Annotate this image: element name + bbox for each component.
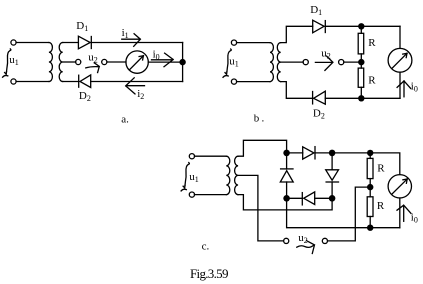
- wire u2 right to middle node b: [344, 61, 362, 63]
- diode bridge right c: [326, 170, 339, 182]
- diode D1 b: [313, 20, 326, 33]
- resistor R lower c: [367, 187, 373, 228]
- current arrow i0 b: [397, 81, 411, 97]
- wire center tap a: [63, 61, 76, 63]
- junction node a: [179, 59, 185, 65]
- transformer secondary winding c: [235, 156, 239, 194]
- svg-text:b .: b .: [254, 113, 265, 125]
- terminal top-left b: [231, 40, 236, 45]
- transformer primary winding c: [226, 156, 230, 194]
- terminal bottom-left c: [189, 192, 194, 197]
- junction bridge top-right c: [329, 150, 336, 157]
- terminal u2 right b: [339, 60, 344, 65]
- voltage arrow u1 a: [3, 49, 11, 77]
- svg-text:Fig.3.59: Fig.3.59: [190, 266, 228, 281]
- wire D1 to meter corner b: [325, 25, 400, 27]
- wire secondary bottom to bottom rail b: [281, 82, 313, 99]
- diode bridge bottom c: [302, 192, 314, 205]
- wire D2 to meter corner b: [325, 97, 400, 99]
- wire D2 to right rail a: [91, 81, 183, 83]
- wire bridge top edge right c: [315, 152, 332, 154]
- svg-text:c.: c.: [202, 241, 210, 253]
- terminal u2 left c: [284, 238, 289, 243]
- resistor R upper c: [367, 153, 373, 187]
- terminal top-left a: [11, 40, 16, 45]
- wire bridge bottom-left to bottom rail c: [287, 198, 400, 227]
- current arrow i1 a: [122, 34, 141, 47]
- wire top corner down to meter b: [399, 26, 401, 48]
- wire u2 right up to middle node c: [328, 187, 371, 241]
- voltage arrow u1 c: [181, 163, 189, 191]
- wire bottom terminal to primary c: [195, 194, 227, 196]
- wire bottom terminal to primary b: [237, 81, 270, 83]
- transformer secondary winding b: [277, 43, 280, 82]
- transformer primary winding b: [270, 43, 273, 82]
- wire secondary top to bridge top-left c: [238, 140, 287, 156]
- wire bottom corner up to meter b: [399, 72, 401, 98]
- wire secondary bottom to bridge bottom-right c: [238, 195, 332, 210]
- current arrow i2 a: [126, 78, 145, 94]
- wire bridge right edge upper c: [331, 153, 333, 170]
- svg-text:a.: a.: [121, 113, 129, 125]
- junction bridge top-left c: [283, 150, 290, 157]
- wire meter bottom to bottom rail c: [399, 198, 401, 228]
- junction top node b: [358, 23, 364, 29]
- wire bottom terminal to primary a: [16, 81, 49, 83]
- wire center tap b: [281, 61, 304, 63]
- voltage arrow u2 a: [86, 63, 100, 73]
- wire bridge right edge lower c: [331, 182, 333, 198]
- wire u2 terminal to meter a: [107, 61, 126, 63]
- current arrow i0 a: [152, 53, 174, 67]
- wire secondary center tap down to u2 left c: [238, 175, 284, 241]
- junction resistor middle node c: [367, 184, 373, 190]
- wire secondary top to D1 a: [63, 42, 79, 44]
- junction bridge bottom-right c: [329, 195, 336, 202]
- junction bottom node b: [358, 95, 364, 101]
- right rail a: [182, 43, 184, 82]
- meter M b: [388, 48, 412, 72]
- wire D1 to right rail a: [91, 42, 182, 44]
- terminal u2 right a: [102, 59, 107, 64]
- diode D2 b: [313, 91, 326, 104]
- voltage arrow u2 c: [297, 241, 315, 254]
- svg-text:R: R: [368, 74, 376, 86]
- wire bridge bottom edge right c: [315, 197, 332, 199]
- svg-text:R: R: [368, 37, 376, 49]
- wire resistor top to meter c: [370, 153, 400, 175]
- terminal top-left c: [189, 154, 194, 159]
- junction middle node b: [358, 59, 364, 65]
- wire bridge top-right to resistor rail c: [332, 152, 370, 154]
- wire secondary bottom to D2 a: [63, 81, 79, 83]
- meter M a: [126, 51, 148, 73]
- meter M c: [388, 175, 411, 198]
- junction resistor bottom node c: [367, 225, 373, 231]
- wire meter to node a: [148, 61, 182, 63]
- diode bridge top c: [303, 147, 315, 160]
- junction bridge bottom-left c: [283, 195, 290, 202]
- wire bridge left edge lower c: [286, 182, 288, 198]
- transformer primary winding a: [49, 43, 53, 82]
- voltage arrow u2 b: [315, 56, 333, 70]
- wire secondary top to top rail b: [281, 26, 313, 42]
- terminal bottom-left b: [231, 79, 236, 84]
- svg-text:R: R: [377, 163, 385, 175]
- terminal bottom-left a: [11, 79, 16, 84]
- wire bridge bottom edge left c: [287, 197, 303, 199]
- transformer secondary winding a: [59, 43, 62, 82]
- diode D1 a: [78, 36, 91, 49]
- resistor R lower b: [358, 62, 364, 98]
- wire bridge top edge left c: [287, 152, 303, 154]
- diode D2 a: [79, 75, 91, 88]
- wire bridge left edge upper c: [286, 153, 288, 169]
- wire top terminal to primary b: [237, 42, 270, 44]
- resistor R upper b: [358, 26, 364, 62]
- wire top terminal to primary c: [195, 155, 227, 157]
- terminal u2 left b: [303, 60, 308, 65]
- junction resistor top node c: [367, 150, 373, 156]
- voltage arrow u1 b: [223, 49, 231, 77]
- svg-text:R: R: [377, 200, 385, 212]
- diode bridge left c: [280, 169, 293, 182]
- current arrow i0 c: [397, 205, 411, 221]
- terminal center tap a: [76, 59, 81, 64]
- terminal u2 right c: [322, 238, 327, 243]
- wire top terminal to primary a: [16, 42, 49, 44]
